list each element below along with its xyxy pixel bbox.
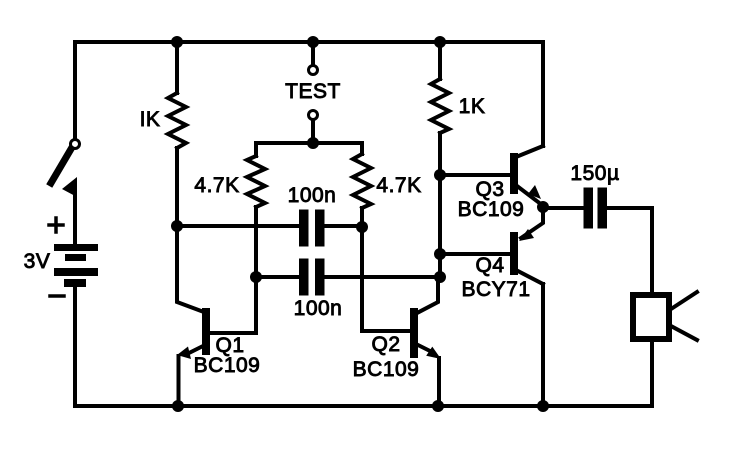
wire bottom rail: [75, 404, 652, 408]
node bottom rail junction at Q2: [432, 400, 444, 412]
node top rail junction at TEST: [307, 36, 319, 48]
transistor Q4 BCY71: [510, 210, 543, 284]
node A Q1 collector junction: [171, 220, 183, 232]
svg-text:BC109: BC109: [458, 198, 525, 221]
svg-text:100n: 100n: [288, 184, 337, 207]
wire node C down to Q1 base: [210, 277, 256, 333]
wire output node to capacitor C3: [544, 206, 583, 210]
wire Q2 emitter to bottom rail: [437, 358, 441, 406]
svg-text:4.7K: 4.7K: [194, 174, 239, 197]
wire node A down to Q1 collector: [177, 226, 204, 312]
capacitor C3 150u: [584, 188, 608, 229]
wire node B down to Q2 base: [362, 227, 412, 331]
wire capacitor C1 to node B: [325, 224, 362, 228]
svg-text:IK: IK: [140, 108, 161, 131]
svg-text:BCY71: BCY71: [461, 278, 530, 301]
svg-text:TEST: TEST: [285, 80, 341, 103]
resistor R1 IK: [168, 93, 186, 148]
wire battery to bottom rail: [73, 287, 77, 406]
node B C1 right junction: [356, 221, 368, 233]
node D Q2 collector junction: [434, 271, 446, 283]
node E Q3 base junction: [434, 169, 446, 181]
node bottom rail junction at Q1: [172, 400, 184, 412]
wire node C to capacitor C2: [256, 275, 300, 279]
wire top rail to resistor IK: [175, 42, 179, 93]
node bottom rail junction at Q4: [537, 400, 549, 412]
svg-text:3V: 3V: [24, 250, 51, 273]
wire test header: [256, 141, 362, 145]
node output junction: [537, 201, 549, 213]
node F Q4 base junction: [434, 248, 446, 260]
transistor Q3 BC109: [510, 146, 543, 205]
wire node A to capacitor C1: [177, 224, 300, 228]
wire header to resistor R3: [360, 143, 364, 154]
wire Q3 collector to top rail: [541, 42, 545, 146]
node top rail junction at 1K: [434, 36, 446, 48]
transistor Q1 BC109: [177, 308, 210, 359]
wire left rail upper: [73, 42, 77, 139]
svg-text:BC109: BC109: [194, 354, 261, 377]
node top rail junction at IK: [171, 36, 183, 48]
TEST terminal wires: [309, 42, 318, 143]
svg-text:100n: 100n: [294, 297, 343, 320]
wire top rail: [75, 40, 543, 44]
wire resistor R2 to node C: [254, 207, 258, 277]
battery B1 3V: [49, 218, 98, 296]
svg-text:Q4: Q4: [475, 254, 504, 277]
svg-text:Q2: Q2: [371, 333, 400, 356]
wire speaker to bottom rail: [650, 339, 654, 406]
speaker LS1: [633, 292, 697, 340]
wire top rail to resistor R4: [438, 42, 442, 79]
capacitor C2 100n: [299, 259, 325, 296]
wire switch to battery: [73, 186, 77, 244]
wire capacitor C2 to node D: [325, 275, 440, 279]
wire resistor IK to node A: [175, 148, 179, 226]
node C C2 left junction: [250, 271, 262, 283]
resistor R3 4.7K: [353, 154, 371, 208]
wire header to resistor R2: [254, 143, 258, 156]
resistor R2 4.7K: [247, 156, 265, 207]
node test header junction: [307, 137, 319, 149]
switch S1: [51, 140, 80, 198]
wire node E to Q3 base: [440, 173, 512, 177]
svg-text:1K: 1K: [459, 95, 486, 118]
transistor Q2 BC109: [410, 278, 441, 359]
svg-text:4.7K: 4.7K: [376, 174, 421, 197]
wire node F to Q4 base: [440, 252, 512, 256]
wire resistor R4 to node D: [438, 133, 442, 277]
wire capacitor C3 to speaker: [607, 208, 652, 292]
wire resistor R3 to node B: [360, 208, 364, 227]
capacitor C1 100n: [299, 210, 325, 247]
svg-text:150µ: 150µ: [570, 162, 619, 185]
svg-text:BC109: BC109: [353, 358, 420, 381]
resistor R4 1K: [431, 79, 449, 133]
wire Q4 collector to bottom rail: [541, 284, 545, 406]
wire Q1 emitter to bottom rail: [177, 356, 181, 406]
